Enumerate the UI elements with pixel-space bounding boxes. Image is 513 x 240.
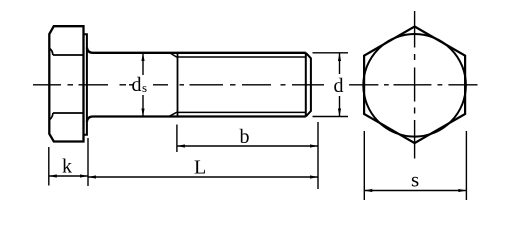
extension line (thread start, for b) (176, 125, 178, 153)
svg-text:d: d (334, 75, 344, 97)
bolt head (side view) (49, 26, 83, 141)
svg-text:s: s (142, 80, 147, 95)
hexagon (head front view) (364, 27, 465, 144)
thread minor diameter top (171, 53, 306, 57)
svg-text:L: L (194, 157, 206, 179)
extension line (right flat, for s) (465, 131, 467, 200)
svg-text:b: b (240, 126, 250, 148)
thread boundary line (177, 53, 179, 117)
dimension b (177, 145, 318, 147)
dimension k (49, 175, 88, 177)
thread major diameter top (178, 52, 306, 54)
dimension L (88, 176, 318, 178)
extension line (left flat, for s) (363, 131, 365, 200)
washer face (84, 34, 87, 135)
thread end line (305, 53, 307, 117)
hex head horizontal centerline (349, 84, 477, 86)
extension line (head/shank junction, for L and k) (87, 138, 89, 186)
svg-text:k: k (62, 156, 72, 178)
dimension ds (142, 53, 144, 117)
dimension d extension lines (313, 53, 349, 117)
svg-text:s: s (411, 168, 419, 192)
inscribed chamfer circle (363, 34, 466, 137)
centerline (bolt axis, left view) (33, 84, 324, 86)
svg-text:d: d (132, 74, 142, 96)
chamfered end (306, 53, 311, 117)
thread major diameter bottom (178, 115, 306, 117)
extension line (head outer face, for k) (48, 147, 50, 186)
shank outline bottom (87, 117, 178, 122)
head chamfer line bottom (50, 113, 84, 120)
extension line (bolt end, for b and L) (317, 122, 319, 189)
head chamfer line top (50, 49, 84, 56)
hex head vertical centerline (414, 11, 416, 159)
thread minor diameter bottom (170, 112, 306, 116)
dimension s (364, 190, 466, 192)
shank outline top (87, 48, 178, 53)
dimension d (339, 53, 341, 117)
